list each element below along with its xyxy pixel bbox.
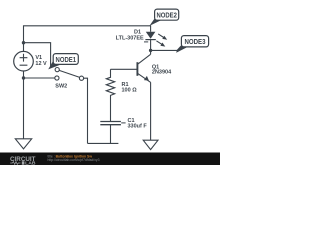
node junction LED cathode [149,49,152,52]
label leader C1 [121,122,125,124]
wire V1 bottom [23,71,25,78]
Q1 collector lead [138,54,151,64]
capacitor C1 [100,122,125,144]
svg-text:LTL-307EE: LTL-307EE [116,36,144,42]
svg-text:NODE2: NODE2 [156,10,177,19]
wire base [111,68,138,70]
wire C1 bottom lead [110,125,112,144]
switch lever tip [55,68,59,72]
svg-text:http://circuitlab.com/c/pf7dfd: http://circuitlab.com/c/pf7dfdsd/xy3 [48,158,100,162]
wire collector [150,50,152,54]
label leader D1 [144,41,148,43]
Q1 emitter arrow [144,76,149,81]
svg-text:LAB: LAB [25,161,36,165]
ground right [143,140,158,149]
wire switch right to bottom rail [84,78,88,143]
wire LED cathode [150,40,152,51]
wire bottom rail [88,142,119,144]
Q1 base bar [136,62,138,76]
svg-text:NODE3: NODE3 [185,37,206,46]
label V1 value [35,55,47,67]
wire to switch left terminal [24,77,55,79]
label C1 value [128,118,148,130]
wire V1 to ground [23,78,25,139]
voltage source V1 [14,51,34,71]
svg-text:12 V: 12 V [35,61,47,67]
label Q1 value [152,64,172,75]
node flag NODE3 [176,36,208,53]
svg-text:330uf F: 330uf F [128,124,148,130]
footer bar [0,153,220,166]
node junction V1 bottom [22,76,25,79]
wire V1 top branch to switch stub [24,43,51,68]
wire emitter to ground [150,82,152,140]
resistor R1 [106,69,114,121]
label R1 value [122,82,138,94]
LED cathode bar [145,39,155,41]
label D1 value [116,30,144,42]
footer title text [48,154,100,162]
svg-text:NODE1: NODE1 [56,55,77,64]
transistor Q1 [137,50,150,140]
node flag NODE2 [149,9,178,26]
wire NODE3 stub [151,49,179,51]
node junction V1 top branch [22,41,25,44]
wire top rail [24,26,151,52]
svg-text:100 Ω: 100 Ω [122,88,138,94]
switch right terminal [79,76,83,80]
footer logo CIRCUIT LAB [10,156,36,167]
switch left terminal [55,76,59,80]
svg-text:SW2: SW2 [55,84,67,90]
LED emission arrows [156,34,167,47]
switch SW2 [55,68,84,81]
C1 plates [100,122,121,125]
ground left [15,139,31,149]
node flag NODE1 [48,54,78,70]
LED anode triangle [146,32,156,39]
LED D1 [144,32,156,51]
Q1 emitter lead [138,73,151,82]
switch lever [59,70,79,77]
svg-text:2N3904: 2N3904 [152,69,172,75]
